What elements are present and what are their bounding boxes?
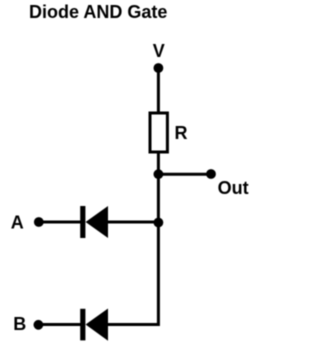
svg-text:Diode AND Gate: Diode AND Gate (29, 2, 167, 22)
svg-text:V: V (153, 41, 165, 61)
svg-text:R: R (175, 123, 188, 143)
svg-text:B: B (13, 314, 26, 334)
svg-text:Out: Out (218, 178, 249, 198)
svg-text:A: A (11, 213, 24, 233)
